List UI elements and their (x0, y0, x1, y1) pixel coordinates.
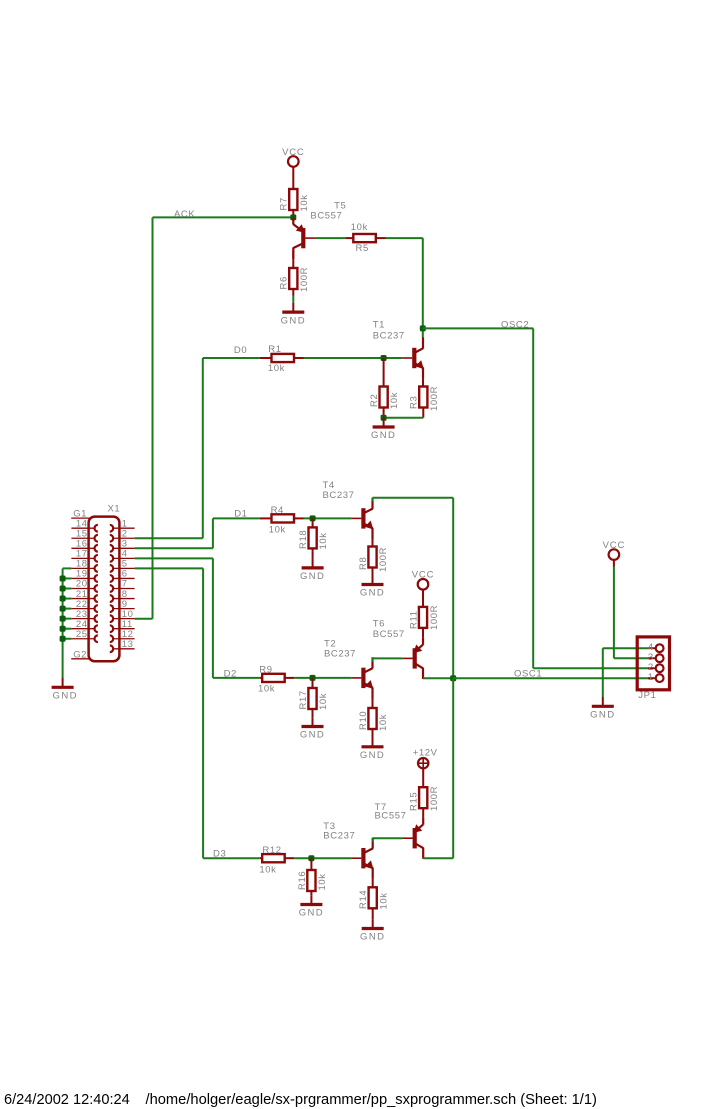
connector JP1 body (637, 637, 669, 701)
svg-text:R11: R11 (408, 610, 419, 629)
power +12V above R15 (413, 748, 438, 788)
wire net D0 horizontal (203, 357, 260, 359)
power VCC above R11 (412, 570, 434, 607)
connector X1 pin 18 (71, 559, 98, 572)
wire JP1 pin 4 to ground (603, 648, 655, 697)
svg-text:GND: GND (281, 315, 306, 326)
wire R4 to T4 base (304, 517, 352, 519)
connector X1 pin 17 (71, 549, 98, 562)
resistor R14 (358, 879, 389, 919)
svg-text:/home/holger/eagle/sx-prgramme: /home/holger/eagle/sx-prgrammer/pp_sxpro… (146, 1092, 597, 1108)
svg-text:10k: 10k (318, 693, 329, 710)
label OSC2 (501, 319, 529, 330)
svg-text:10k: 10k (268, 363, 285, 374)
resistor R18 (298, 518, 329, 558)
ground below R14 (360, 919, 385, 943)
svg-text:10k: 10k (269, 524, 286, 535)
resistor R1 (260, 344, 304, 374)
ground below JP1 (590, 697, 615, 721)
svg-text:D2: D2 (224, 668, 237, 679)
svg-text:G2: G2 (73, 650, 87, 661)
wire X1 pin2 to net D0 (135, 358, 203, 538)
svg-text:GND: GND (53, 691, 78, 702)
connector X1 pin 25 (71, 629, 98, 642)
connector X1 pin 19 (71, 569, 98, 582)
resistor R17 (298, 678, 329, 717)
svg-text:GND: GND (371, 430, 396, 441)
junction D2-R17 (310, 675, 316, 681)
connector X1 pin 24 (71, 619, 98, 632)
svg-text:R5: R5 (356, 243, 369, 254)
connector JP1 pin 1 (648, 672, 664, 683)
svg-text:GND: GND (590, 710, 615, 721)
junction ACK-R7-T5 (290, 214, 296, 220)
svg-text:10k: 10k (299, 194, 310, 211)
resistor R7 (279, 189, 310, 217)
svg-text:100R: 100R (429, 786, 440, 811)
svg-text:GND: GND (300, 730, 325, 741)
connector X1 body (89, 503, 121, 661)
power VCC (top, above R7) (282, 147, 304, 189)
svg-text:BC237: BC237 (324, 649, 356, 660)
resistor R15 (409, 786, 440, 818)
wire T5 base to R5 (315, 237, 346, 239)
resistor R10 (358, 699, 389, 738)
svg-text:R6: R6 (279, 276, 290, 289)
ground below R17 (300, 717, 325, 741)
connector X1 pin 9 (110, 599, 135, 612)
wire net D3 horizontal (203, 857, 260, 859)
junction D0-R2 (381, 355, 387, 361)
svg-text:R9: R9 (259, 664, 272, 675)
svg-text:GND: GND (360, 932, 385, 943)
svg-text:OSC1: OSC1 (514, 668, 542, 679)
svg-text:10k: 10k (351, 222, 368, 233)
svg-text:BC557: BC557 (310, 211, 342, 222)
resistor R3 (409, 379, 440, 418)
junctions X1 ground bus (60, 575, 66, 641)
connector X1 pin 10 (110, 609, 135, 622)
wire net OSC2 to the right (423, 328, 655, 668)
resistor R5 (346, 222, 386, 254)
ground below R8 (360, 575, 385, 599)
resistor R4 (260, 505, 304, 535)
svg-text:D0: D0 (234, 345, 247, 356)
wire net D1 horizontal (213, 517, 260, 519)
svg-text:D3: D3 (213, 849, 226, 860)
connector JP1 pin 4 (648, 642, 664, 653)
svg-text:100R: 100R (429, 605, 440, 630)
wire T2 collector to T6 base (373, 658, 403, 661)
svg-text:ACK: ACK (174, 209, 195, 220)
resistor R9 (258, 664, 294, 694)
svg-text:BC557: BC557 (375, 811, 407, 822)
connector X1 pin 3 (110, 539, 135, 552)
resistor R6 (279, 250, 310, 302)
connector X1 pin G2 (71, 650, 90, 661)
connector X1 pin 5 (110, 559, 135, 572)
connector X1 pin 16 (71, 539, 98, 552)
wire net ACK horizontal (153, 216, 294, 218)
ground below R16 (299, 895, 324, 919)
svg-text:R1: R1 (268, 344, 281, 355)
wire X1 pin4 to net D2 (135, 558, 213, 678)
svg-text:BC557: BC557 (373, 629, 405, 640)
svg-text:GND: GND (299, 908, 324, 919)
wire T3 collector to T7 base (373, 838, 403, 842)
transistor T3 BC237 (323, 821, 373, 879)
power VCC above JP1 (603, 540, 625, 567)
connector JP1 pin 3 (648, 652, 664, 663)
ground below X1 (52, 678, 78, 702)
label D0 (234, 345, 247, 356)
wire net OSC1 to JP1 (453, 677, 654, 679)
wire X1 pin5 to net D3 (135, 568, 204, 858)
wire X1 pin3 to net D1 (135, 518, 213, 548)
svg-text:R3: R3 (409, 396, 420, 409)
svg-text:R7: R7 (279, 197, 290, 210)
wire T7 collector to right vertical (423, 678, 453, 858)
svg-text:+12V: +12V (413, 748, 438, 759)
label ACK (174, 209, 195, 220)
svg-text:25: 25 (76, 629, 88, 640)
wire T6 collector to OSC1 junction (423, 677, 453, 679)
junction OSC1 (450, 675, 456, 681)
connector X1 pin 13 (110, 639, 135, 652)
wire net ACK vertical to X1 pin 10 (135, 217, 153, 618)
connector X1 pin 15 (71, 528, 98, 541)
svg-text:R2: R2 (369, 394, 380, 407)
wire R1 to T1 base (304, 357, 403, 359)
svg-text:10k: 10k (259, 864, 276, 875)
transistor T4 BC237 (323, 480, 374, 539)
svg-text:VCC: VCC (412, 570, 434, 581)
ground below R18 (300, 559, 325, 583)
connector X1 pin 23 (71, 609, 98, 622)
svg-text:1: 1 (648, 672, 654, 683)
label OSC1 (514, 668, 542, 679)
sheet footer text (4, 1092, 597, 1108)
label D3 (213, 849, 226, 860)
svg-text:13: 13 (122, 639, 134, 650)
label D1 (234, 509, 247, 520)
svg-text:R18: R18 (298, 530, 309, 549)
svg-text:10k: 10k (378, 714, 389, 731)
connector X1 pin 1 (110, 518, 135, 531)
svg-text:OSC2: OSC2 (501, 319, 529, 330)
wire R12 to T3 base (294, 857, 351, 859)
svg-text:10k: 10k (258, 684, 275, 695)
svg-text:R17: R17 (298, 690, 309, 709)
connector X1 pin 11 (110, 619, 135, 632)
svg-text:R15: R15 (409, 792, 420, 811)
svg-text:10k: 10k (318, 532, 329, 549)
ground below R6 (281, 303, 306, 327)
wire T4 collector to right vertical (373, 498, 454, 678)
connector X1 pin 8 (110, 589, 135, 602)
transistor T6 BC557 (373, 619, 424, 679)
connector X1 pin 14 (71, 518, 98, 531)
wire X1 ground bus (pins 18-25) (63, 568, 72, 678)
connector X1 pin 12 (110, 629, 135, 642)
connector X1 pin 6 (110, 569, 135, 582)
junction D3-R16 (308, 855, 314, 861)
svg-text:R8: R8 (358, 557, 369, 570)
connector X1 pin 4 (110, 549, 135, 562)
svg-text:GND: GND (360, 750, 385, 761)
svg-text:10k: 10k (378, 892, 389, 909)
svg-text:VCC: VCC (282, 147, 304, 158)
wire R5 to T1 collector (net OSC2 branch) (386, 238, 423, 338)
svg-text:10k: 10k (389, 392, 400, 409)
svg-text:X1: X1 (108, 503, 121, 514)
junction R2 bottom (381, 415, 387, 421)
connector X1 pin 20 (71, 579, 98, 592)
svg-text:GND: GND (360, 588, 385, 599)
svg-text:BC237: BC237 (323, 830, 355, 841)
svg-text:100R: 100R (378, 547, 389, 572)
svg-text:BC237: BC237 (373, 331, 405, 342)
svg-text:D1: D1 (234, 509, 247, 520)
resistor R16 (297, 858, 328, 895)
transistor T2 BC237 (324, 639, 373, 699)
ground below R10 (360, 738, 385, 762)
svg-text:R12: R12 (262, 845, 281, 856)
svg-text:R14: R14 (358, 890, 369, 909)
resistor R12 (259, 845, 294, 875)
wire net D2 horizontal (213, 677, 260, 679)
svg-text:R4: R4 (271, 505, 284, 516)
svg-text:JP1: JP1 (638, 690, 656, 701)
svg-text:100R: 100R (299, 267, 310, 292)
connector X1 pin 7 (110, 579, 135, 592)
ground below R2/R3 (371, 418, 396, 442)
svg-text:10k: 10k (317, 873, 328, 890)
svg-text:T1: T1 (373, 320, 385, 331)
resistor R8 (358, 539, 389, 583)
label D2 (224, 668, 237, 679)
svg-text:VCC: VCC (603, 540, 625, 551)
resistor R2 (369, 358, 400, 418)
transistor T7 BC557 (375, 802, 424, 859)
connector X1 pin 22 (71, 599, 98, 612)
junction OSC2 at T1 collector (420, 325, 426, 331)
transistor T5 BC557 (293, 201, 346, 259)
connector X1 pin 21 (71, 589, 98, 602)
wire R2-R3 bottom (384, 417, 424, 419)
svg-text:GND: GND (300, 571, 325, 582)
svg-text:T6: T6 (373, 619, 385, 630)
wire R9 to T2 base (294, 677, 351, 679)
connector X1 pin G1 (71, 508, 90, 519)
svg-text:100R: 100R (429, 386, 440, 411)
wire VCC to JP1 pin 3 (614, 567, 655, 659)
resistor R11 (408, 605, 440, 638)
svg-text:R16: R16 (297, 871, 308, 890)
transistor T1 BC237 (373, 320, 424, 379)
svg-text:R10: R10 (358, 711, 369, 730)
connector X1 pin 2 (110, 528, 135, 541)
junction D1-R18 (310, 515, 316, 521)
svg-text:BC237: BC237 (323, 490, 355, 501)
svg-text:6/24/2002 12:40:24: 6/24/2002 12:40:24 (4, 1092, 130, 1108)
connector JP1 pin 2 (648, 662, 664, 673)
